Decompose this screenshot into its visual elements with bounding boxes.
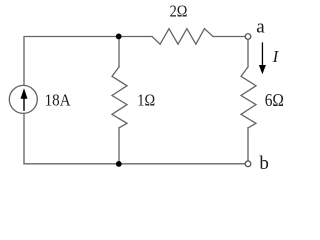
wire 6-ohm resistor to node b (247, 128, 249, 161)
resistor 6Ω (zigzag) (241, 67, 256, 128)
resistor 2Ω (zigzag) (152, 29, 213, 45)
svg-text:1Ω: 1Ω (137, 91, 155, 110)
current source arrow (up) (21, 88, 28, 111)
wire left rail bottom (current source to bottom rail) (23, 113, 25, 163)
junction top (filled dot) (116, 34, 122, 40)
current source I1 circle (9, 85, 37, 113)
current arrow I (down) (259, 42, 266, 74)
wire middle rail top (junction to 1-ohm resistor) (118, 37, 120, 67)
wire top rail left (top-left corner to junction) (24, 37, 119, 86)
svg-text:6Ω: 6Ω (265, 90, 284, 110)
svg-text:a: a (256, 17, 265, 38)
svg-text:18A: 18A (45, 91, 72, 110)
wire top rail middle (junction to 2-ohm resistor) (119, 36, 152, 38)
svg-text:2Ω: 2Ω (170, 2, 188, 21)
svg-text:I: I (272, 47, 280, 66)
wire top rail right (resistor to node a) (213, 36, 245, 38)
node b terminal (open circle) (245, 161, 251, 167)
junction bottom (filled dot) (116, 161, 122, 167)
node a terminal (open circle) (245, 34, 251, 40)
svg-text:b: b (259, 153, 269, 174)
wire bottom rail (24, 163, 245, 165)
wire node a to 6-ohm resistor (247, 39, 249, 67)
wire middle rail bottom (1-ohm resistor to bottom junction) (118, 128, 120, 164)
resistor 1Ω (zigzag) (112, 67, 127, 128)
